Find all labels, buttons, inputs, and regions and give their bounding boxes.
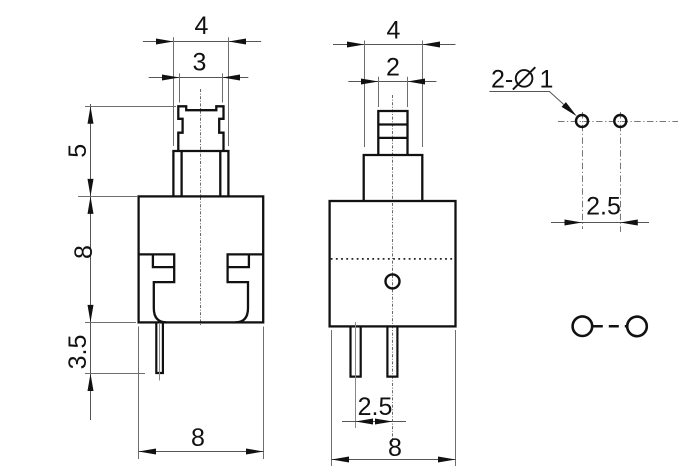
- pin centerline left: [355, 322, 357, 428]
- dim 2.5 pins arrows: [356, 419, 374, 425]
- ext line pin tip: [85, 373, 145, 375]
- dim 3: dimension line: [149, 77, 249, 79]
- bottom dim 8 line: [139, 451, 264, 453]
- bottom dim 8: extension lines: [139, 327, 264, 460]
- bottom dim 8 ext lines: [332, 330, 456, 466]
- centerline front view: [200, 89, 202, 325]
- bottom dim 8 arrows: [139, 449, 157, 455]
- svg-text:1: 1: [540, 66, 554, 94]
- dim 8 arrow down at body bottom: [88, 305, 94, 323]
- dim 8 arrow up at junction: [88, 196, 94, 214]
- schematic dashed connection: [593, 325, 626, 328]
- ext line cap top: [85, 106, 176, 108]
- dim 4 line: [333, 44, 456, 46]
- internal contact bracket left: [139, 254, 175, 322]
- internal contact bracket right: [228, 254, 264, 322]
- ext line body bottom: [85, 322, 136, 324]
- dim 2 arrows: [361, 79, 379, 85]
- dim 4 arrows: [156, 39, 174, 45]
- svg-text:2: 2: [386, 53, 400, 81]
- svg-text:8: 8: [191, 424, 205, 452]
- plunger side with ribs: [378, 111, 407, 155]
- svg-text:2-: 2-: [491, 66, 513, 94]
- plunger cap castellated outline: [178, 106, 223, 151]
- dim 2 ext lines: [379, 77, 408, 107]
- hole centerline vertical right: [620, 112, 622, 232]
- label leader underline: [489, 92, 570, 111]
- dim 3 extension lines: [180, 73, 223, 102]
- dim 4 ext lines: [365, 41, 423, 148]
- dim 3.5 arrow up (below pin tip line): [88, 374, 94, 392]
- diameter symbol slash: [513, 67, 535, 89]
- svg-text:3: 3: [193, 48, 207, 76]
- dim 4 top: dimension line: [143, 41, 261, 43]
- switch body outline side: [330, 201, 456, 326]
- collar side: [364, 155, 423, 201]
- leader arrowhead: [562, 102, 577, 116]
- side hole circle: [386, 274, 400, 288]
- mounting hole right: [614, 115, 626, 127]
- dim 4 extension lines: [174, 37, 229, 146]
- svg-text:2.5: 2.5: [586, 192, 621, 220]
- terminal pin side right: [387, 327, 397, 377]
- schematic contact circle right: [627, 317, 647, 337]
- mounting hole left: [576, 115, 588, 127]
- schematic contact circle left: [573, 316, 593, 336]
- hole centerline horizontal: [558, 121, 678, 123]
- collar front: [173, 151, 228, 196]
- dim 4 arrows: [347, 42, 365, 48]
- dim 5 arrow up: [88, 106, 94, 124]
- svg-text:5: 5: [64, 144, 92, 158]
- latch travel dotted line: [331, 258, 455, 260]
- diameter symbol circle: [516, 70, 533, 87]
- bottom dim 8 line: [332, 459, 456, 461]
- ext line body top: [78, 196, 137, 198]
- pin centerline front: [159, 323, 161, 381]
- dim 2.5 pins line: [342, 421, 406, 423]
- terminal pin side left: [351, 327, 361, 377]
- dim 2 line: [348, 81, 436, 83]
- switch body outline front: [139, 196, 264, 322]
- svg-text:8: 8: [70, 245, 98, 259]
- svg-text:4: 4: [387, 16, 401, 44]
- svg-text:4: 4: [195, 12, 209, 40]
- left vertical dimension line 5-8-3.5: [90, 104, 92, 420]
- centerline side view: [392, 95, 394, 442]
- svg-text:2.5: 2.5: [358, 393, 393, 421]
- dim 3 arrows: [162, 75, 180, 81]
- bottom dim 8 arrows: [332, 457, 350, 463]
- dim 5 arrow down / junction: [88, 179, 94, 197]
- terminal pin front: [156, 323, 163, 373]
- svg-text:8: 8: [388, 434, 402, 462]
- hole centerline vertical left: [582, 112, 584, 229]
- svg-text:3.5: 3.5: [64, 335, 92, 370]
- dim 2.5 holes line: [551, 222, 649, 224]
- dim 2.5 holes arrows: [565, 220, 583, 226]
